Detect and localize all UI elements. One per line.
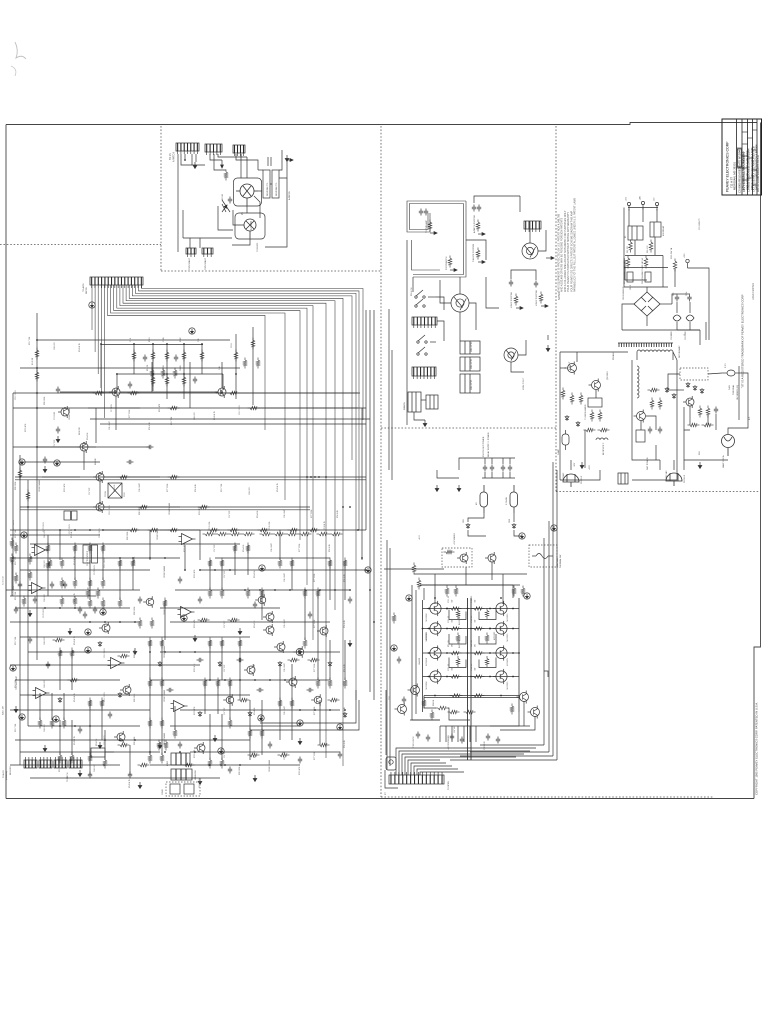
wire — [646, 416, 656, 430]
ground block — [285, 155, 289, 162]
wire — [89, 560, 91, 600]
wire corner — [250, 700, 359, 730]
ground P26 — [551, 525, 557, 531]
ground — [457, 485, 461, 492]
ground — [435, 485, 439, 492]
svg-text:R117 10K: R117 10K — [15, 723, 17, 732]
boundary dashed line preamp bottom — [161, 270, 381, 272]
svg-text:R1 2.2K: R1 2.2K — [32, 357, 34, 365]
opto module LDR1 — [171, 753, 190, 765]
resistor R72 — [688, 423, 700, 427]
op-amp U3A — [179, 534, 196, 545]
capacitor C67 block — [627, 272, 633, 282]
svg-text:C96 .0047: C96 .0047 — [284, 573, 286, 582]
svg-text:PATCH A AMPLIFIER PATCH A AMP: PATCH A AMPLIFIER PATCH A AMP — [750, 147, 754, 190]
wire — [149, 530, 151, 560]
wire — [420, 584, 520, 586]
ground P9 — [85, 647, 91, 653]
ground — [78, 770, 82, 777]
diode CR11 — [565, 415, 569, 421]
thermal breaker TB — [532, 554, 553, 559]
svg-text:C57 22P: C57 22P — [224, 707, 226, 715]
junction — [104, 739, 106, 741]
resistor R42 — [220, 588, 224, 599]
capacitor C30 — [416, 732, 420, 739]
wire filament run — [177, 154, 179, 252]
wire array outer loop — [412, 585, 440, 720]
resistor R32 base right — [472, 607, 485, 611]
diode CR11 — [686, 382, 690, 388]
fuse F3 — [480, 485, 488, 513]
wire — [182, 210, 184, 238]
junction — [342, 506, 344, 508]
resistor R66 — [228, 678, 232, 689]
wire — [195, 154, 197, 162]
wire — [30, 777, 220, 779]
junction — [334, 589, 336, 591]
transistor Q51 — [589, 379, 601, 392]
ground — [43, 745, 47, 752]
junction — [239, 764, 241, 766]
wire — [170, 725, 300, 727]
transistor Q19 — [311, 694, 322, 706]
svg-text:C16: C16 — [198, 339, 200, 342]
arrow to supply — [287, 159, 293, 162]
svg-text:MJ15024: MJ15024 — [426, 631, 428, 640]
boundary dashed line power supply bottom — [556, 491, 759, 493]
resistor R53 — [208, 638, 212, 649]
capacitor C66 — [714, 407, 718, 414]
resistor R25 — [60, 578, 64, 589]
svg-text:TO PWR AMP: TO PWR AMP — [425, 220, 428, 233]
wire — [15, 476, 366, 478]
connector J22 — [412, 317, 437, 328]
capacitor C37 — [33, 597, 37, 604]
wire — [491, 458, 493, 464]
inductor L1 — [673, 302, 681, 330]
ground P20 — [519, 533, 525, 539]
resistor R30 base right — [472, 675, 485, 679]
wire — [6, 589, 140, 591]
resistor R67 — [316, 678, 320, 689]
wire — [101, 700, 103, 740]
resistor R20 — [48, 558, 52, 569]
wire right rail — [365, 310, 367, 530]
transistor Q9 — [114, 731, 125, 743]
resistor R70 — [88, 698, 92, 709]
capacitor C5 — [228, 197, 232, 204]
wire — [10, 764, 120, 766]
wire — [116, 374, 118, 392]
arrow — [541, 305, 548, 308]
wire — [436, 297, 444, 310]
resistor R2 — [35, 370, 39, 382]
wire — [15, 607, 130, 609]
title block cell ticks — [742, 132, 748, 180]
ground P12 — [258, 715, 264, 721]
ground — [423, 420, 427, 427]
ground — [158, 742, 162, 749]
junction — [149, 651, 151, 653]
wire loop drop — [406, 240, 408, 425]
wire — [440, 280, 451, 303]
resistor R74 — [173, 728, 177, 739]
svg-text:R164 1K: R164 1K — [257, 510, 259, 518]
svg-text:R143 4.7K: R143 4.7K — [74, 735, 76, 745]
svg-text:R8 470K: R8 470K — [79, 427, 81, 435]
ground — [198, 778, 202, 785]
transistor Q18 — [293, 646, 304, 658]
wire — [423, 588, 425, 600]
svg-text:C96 .0047: C96 .0047 — [109, 421, 111, 430]
capacitor C102 — [397, 657, 401, 664]
svg-text:C84 .022: C84 .022 — [44, 724, 46, 732]
resistor R35 — [150, 618, 154, 629]
svg-text:R62 4.7K: R62 4.7K — [647, 245, 649, 253]
svg-text:RD LDR3: RD LDR3 — [10, 766, 12, 775]
wire — [502, 574, 504, 604]
junction — [289, 589, 291, 591]
wire bus — [129, 285, 343, 766]
svg-text:R12 .33: R12 .33 — [471, 640, 473, 647]
svg-text:C100 100/50: C100 100/50 — [413, 736, 415, 748]
transistor Q12 — [263, 611, 274, 623]
boundary dashed line preamp left — [160, 126, 162, 271]
svg-text:-20V: -20V — [574, 462, 576, 467]
transistor Q11 — [194, 742, 205, 754]
ground P15 — [181, 615, 187, 621]
wire loop inner — [410, 204, 464, 230]
wire — [150, 764, 300, 766]
ground P11 — [365, 567, 371, 573]
grid resistor block — [263, 170, 270, 198]
wire — [20, 694, 250, 696]
resistor R123 — [60, 596, 64, 607]
svg-text:IN DIODE B: IN DIODE B — [459, 637, 461, 648]
svg-text:R11 .33: R11 .33 — [448, 616, 450, 622]
wire — [20, 506, 310, 508]
diode CR7 — [198, 711, 202, 717]
transistor Q50 — [565, 362, 577, 375]
resistor R57 — [58, 648, 62, 659]
resistor R119 — [28, 554, 32, 565]
arrow — [478, 261, 485, 264]
transformer T2 winding — [637, 366, 639, 398]
wire bus drop — [100, 285, 102, 396]
resistor R117 — [10, 538, 14, 549]
svg-text:MJ15025: MJ15025 — [507, 682, 509, 690]
wire — [560, 351, 628, 353]
junction — [369, 589, 371, 591]
ground — [133, 648, 137, 655]
wire to tube — [246, 157, 248, 178]
svg-text:R12 .33: R12 .33 — [471, 616, 473, 623]
wire — [421, 399, 426, 401]
svg-text:5W: 5W — [475, 619, 477, 622]
wire — [10, 557, 180, 559]
wire — [218, 206, 233, 230]
wire — [239, 640, 241, 700]
junction — [44, 607, 46, 609]
capacitor C41 — [424, 209, 428, 216]
transistor Q52 — [634, 410, 646, 423]
ground — [238, 628, 242, 635]
wire array top rail — [420, 584, 513, 586]
resistor R132 — [273, 532, 286, 536]
resistor R83 — [445, 586, 449, 597]
wire — [291, 664, 293, 700]
wire — [221, 640, 223, 680]
junction array — [518, 652, 520, 654]
ground P5b — [21, 532, 27, 538]
opto block output — [386, 757, 396, 770]
arrow signal — [221, 160, 224, 168]
resistor R18 — [14, 573, 18, 584]
resistor R120 — [28, 570, 32, 581]
junction — [183, 343, 185, 345]
junction — [310, 476, 312, 478]
relay K1 coil box — [628, 226, 643, 240]
svg-text:LDR3: LDR3 — [167, 760, 169, 766]
arrow — [478, 233, 485, 236]
capacitor C6 — [14, 607, 18, 614]
wire — [89, 700, 91, 740]
svg-text:C96 .0047: C96 .0047 — [284, 619, 286, 628]
junction — [134, 621, 136, 623]
svg-text:CR84 1N4448: CR84 1N4448 — [164, 690, 166, 702]
capacitor C22 — [228, 767, 232, 774]
wire — [344, 640, 346, 680]
resistor R69 — [648, 388, 660, 392]
wire — [728, 380, 748, 434]
junction — [27, 506, 29, 508]
junction — [166, 343, 168, 345]
capacitor C10 — [143, 355, 147, 362]
resistor R102 — [138, 763, 150, 767]
wire — [150, 679, 330, 681]
capacitor C12 — [193, 377, 197, 384]
resistor R150 — [157, 740, 161, 751]
connector J4 — [54, 757, 67, 768]
wire — [59, 650, 61, 690]
resistor R4 — [93, 391, 105, 395]
svg-text:R143 4.7K: R143 4.7K — [71, 528, 73, 538]
wire bus drop — [97, 285, 99, 374]
svg-text:C57 22P: C57 22P — [224, 664, 226, 672]
svg-text:R77 220K: R77 220K — [299, 543, 301, 552]
resistor R107 — [328, 698, 340, 702]
wire middle left rail — [388, 309, 390, 470]
wire — [690, 329, 700, 331]
resistor R3 — [173, 368, 177, 379]
fuse F4 — [510, 485, 518, 513]
wire — [201, 344, 203, 374]
svg-text:R56 6.8K: R56 6.8K — [149, 421, 151, 430]
resistor R136 — [330, 532, 343, 536]
junction — [235, 373, 237, 375]
resistor R7 — [228, 391, 240, 395]
capacitor C71 — [490, 465, 494, 472]
junction — [329, 709, 331, 711]
svg-text:NOTES:: NOTES: — [558, 291, 561, 300]
resistor R16 — [165, 375, 169, 387]
wire long rail — [90, 418, 370, 420]
wire — [677, 293, 690, 295]
svg-text:R88 100K: R88 100K — [239, 766, 241, 775]
resistor R5 — [224, 170, 228, 181]
svg-text:PILOT LIGHT POWER: PILOT LIGHT POWER — [483, 436, 485, 457]
diode block CR11/CR12 — [108, 483, 122, 498]
title block divider — [756, 119, 758, 195]
transistor Q17 — [255, 594, 266, 606]
ground — [56, 436, 60, 443]
ground P8 — [85, 629, 91, 635]
svg-text:(RIBBON): (RIBBON) — [6, 771, 8, 780]
wire bus 2 — [399, 751, 530, 775]
junction — [221, 391, 223, 393]
svg-text:C178 10/25: C178 10/25 — [43, 608, 45, 618]
svg-text:R201 47K: R201 47K — [299, 766, 301, 775]
ground P24 — [391, 645, 397, 651]
wire — [175, 589, 350, 591]
wire tone rail bottom — [116, 373, 223, 375]
wire — [229, 680, 231, 720]
wire — [247, 545, 249, 575]
junction — [349, 589, 351, 591]
resistor R31 — [88, 598, 92, 609]
capacitor C11 — [174, 355, 178, 362]
svg-text:C96 .0047: C96 .0047 — [284, 751, 286, 760]
wire — [265, 178, 287, 247]
wire — [502, 472, 504, 478]
junction — [194, 651, 196, 653]
block J26 — [426, 395, 438, 409]
wire — [184, 545, 186, 570]
svg-text:R11 .33: R11 .33 — [448, 641, 450, 647]
wire — [270, 183, 272, 185]
junction — [344, 709, 346, 711]
svg-text:TO A155: TO A155 — [2, 769, 5, 778]
resistor R18 — [234, 350, 238, 362]
junction — [224, 764, 226, 766]
wire — [161, 720, 163, 755]
svg-text:ENG PROJECT DWN MANChES: ENG PROJECT DWN MANChES — [741, 151, 745, 190]
svg-text:R117 10K: R117 10K — [15, 556, 17, 565]
wire — [361, 408, 363, 560]
junction — [183, 373, 185, 375]
wire — [42, 476, 80, 478]
connector J1 main harness — [90, 277, 143, 288]
capacitor C21 — [338, 752, 342, 759]
junction — [134, 739, 136, 741]
wire — [584, 430, 586, 468]
resistor R9 — [243, 358, 247, 369]
resistor R68 — [658, 398, 662, 410]
wire — [486, 277, 499, 308]
svg-text:C84 .022: C84 .022 — [44, 637, 46, 645]
svg-text:MJ15025: MJ15025 — [494, 631, 496, 640]
resistor R62 — [579, 393, 583, 405]
wire — [218, 154, 247, 157]
wire — [668, 389, 684, 391]
svg-text:LAMP 120V A: LAMP 120V A — [722, 455, 725, 468]
resistor R26 — [73, 578, 77, 589]
ground P5 — [19, 714, 25, 720]
wire — [625, 260, 647, 280]
transistor Q15 — [317, 625, 328, 637]
junction — [306, 476, 308, 478]
wire array outer loop 2 — [415, 590, 417, 714]
svg-text:C57 22P: C57 22P — [214, 544, 216, 552]
resistor R89 — [148, 528, 160, 532]
wire right edge rail — [518, 598, 520, 712]
svg-text:CR84 1N4448: CR84 1N4448 — [164, 733, 166, 745]
wire — [529, 221, 531, 243]
jack J27 XLR — [504, 348, 518, 362]
wire — [95, 408, 97, 443]
AC plug symbol PL2 — [666, 473, 682, 486]
wire — [631, 400, 633, 445]
capacitor C5 — [127, 460, 134, 464]
node — [446, 608, 448, 610]
wire — [10, 709, 150, 711]
wire — [104, 476, 160, 478]
svg-text:R77 220K: R77 220K — [311, 509, 313, 518]
junction array — [422, 628, 424, 630]
junction — [59, 725, 61, 727]
wire — [468, 530, 486, 536]
wire — [466, 240, 486, 260]
ground — [213, 735, 217, 742]
capacitor C14 — [308, 612, 312, 619]
capacitor C33 — [460, 737, 464, 744]
resistor R84 — [454, 586, 458, 597]
capacitor C75 — [508, 465, 512, 472]
wire — [215, 557, 330, 559]
resistor R73 — [702, 423, 714, 427]
svg-text:R88 100K: R88 100K — [44, 396, 46, 405]
transistor Q5 — [93, 471, 104, 483]
pilot lamp DS1 — [722, 435, 735, 457]
grid resistor block 2 — [272, 170, 279, 198]
resistor R98 — [198, 618, 210, 622]
block LDR14 — [184, 784, 194, 794]
wire — [683, 460, 685, 470]
capacitor C65 — [658, 427, 662, 434]
terminal +20V — [686, 259, 689, 268]
wire — [412, 277, 414, 292]
node — [489, 628, 491, 630]
wire — [673, 352, 677, 360]
svg-text:CR12: CR12 — [124, 492, 126, 497]
wire — [705, 322, 707, 340]
wire — [646, 316, 648, 326]
resistor R46 — [290, 558, 294, 569]
wire — [437, 321, 444, 341]
resistor R17 — [182, 375, 186, 387]
resistor R93 — [258, 528, 270, 532]
wire bus — [111, 285, 285, 500]
resistor R72 — [148, 718, 152, 729]
resistor R104 — [238, 698, 250, 702]
diode CR13 — [665, 387, 669, 393]
wire center rail + — [467, 598, 469, 760]
resistor R28 base left — [449, 627, 462, 631]
wire bus drop — [91, 285, 93, 330]
wire — [668, 374, 680, 390]
wire — [674, 269, 676, 287]
junction — [102, 529, 104, 531]
